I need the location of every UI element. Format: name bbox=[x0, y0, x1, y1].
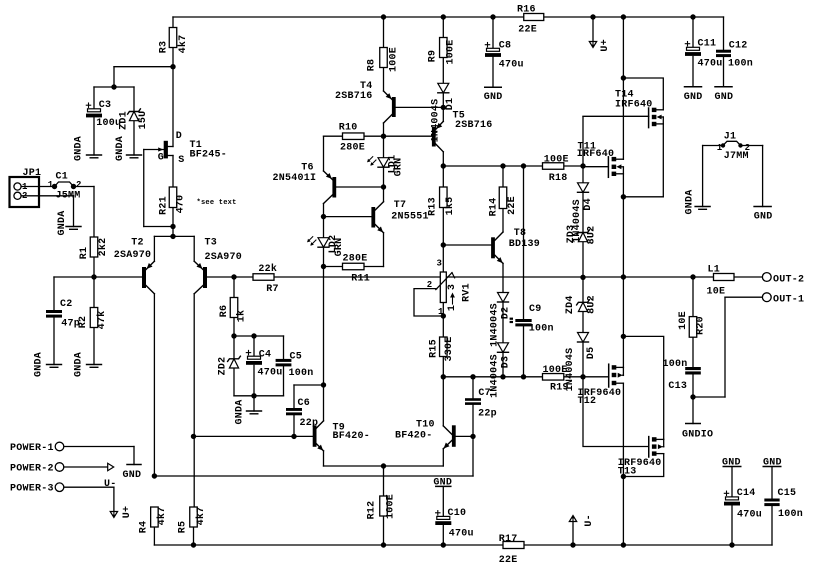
svg-text:S: S bbox=[178, 155, 184, 166]
svg-text:470u: 470u bbox=[698, 59, 723, 70]
svg-text:GNDA: GNDA bbox=[34, 352, 45, 377]
svg-text:100n: 100n bbox=[728, 59, 753, 70]
svg-text:R2: R2 bbox=[78, 316, 89, 329]
svg-text:100E: 100E bbox=[543, 365, 568, 376]
svg-text:T2: T2 bbox=[131, 237, 144, 248]
svg-text:R7: R7 bbox=[266, 284, 279, 295]
svg-text:1N4004S: 1N4004S bbox=[431, 99, 442, 143]
svg-text:100E: 100E bbox=[446, 39, 457, 64]
svg-text:C8: C8 bbox=[499, 41, 512, 52]
svg-text:D5: D5 bbox=[586, 347, 597, 360]
svg-text:L1: L1 bbox=[708, 265, 721, 276]
svg-text:T6: T6 bbox=[301, 162, 314, 173]
svg-text:R14: R14 bbox=[489, 198, 500, 217]
svg-text:1: 1 bbox=[48, 180, 54, 190]
svg-text:ZD4: ZD4 bbox=[565, 295, 576, 314]
svg-text:1k: 1k bbox=[236, 310, 248, 323]
svg-text:T8: T8 bbox=[514, 228, 527, 239]
svg-text:GNDA: GNDA bbox=[235, 399, 246, 424]
svg-text:100n: 100n bbox=[289, 368, 314, 379]
svg-text:330E: 330E bbox=[444, 336, 455, 361]
svg-text:R4: R4 bbox=[138, 521, 149, 534]
svg-text:R15: R15 bbox=[429, 339, 440, 358]
svg-text:100E: 100E bbox=[386, 494, 397, 519]
svg-text:2: 2 bbox=[76, 180, 82, 190]
svg-text:GRN: GRN bbox=[334, 238, 345, 257]
svg-text:GNDIO: GNDIO bbox=[682, 429, 713, 440]
svg-text:2: 2 bbox=[22, 191, 28, 201]
svg-text:470u: 470u bbox=[449, 529, 474, 540]
svg-text:GND: GND bbox=[715, 92, 734, 103]
svg-text:15U: 15U bbox=[138, 111, 149, 130]
svg-text:GND: GND bbox=[763, 458, 782, 469]
svg-text:C14: C14 bbox=[737, 488, 756, 499]
svg-text:R16: R16 bbox=[517, 5, 536, 16]
svg-text:G: G bbox=[158, 153, 164, 164]
svg-text:22p: 22p bbox=[478, 409, 497, 420]
svg-text:GND: GND bbox=[484, 92, 503, 103]
svg-text:1: 1 bbox=[717, 143, 723, 153]
svg-text:1N4004S: 1N4004S bbox=[490, 303, 501, 347]
svg-text:D1: D1 bbox=[445, 98, 456, 111]
svg-text:2SA970: 2SA970 bbox=[205, 252, 243, 263]
svg-text:1N4004S: 1N4004S bbox=[490, 354, 501, 398]
svg-text:R6: R6 bbox=[219, 305, 230, 318]
svg-text:GND: GND bbox=[722, 458, 741, 469]
svg-text:POWER-3: POWER-3 bbox=[10, 484, 54, 495]
svg-text:470u: 470u bbox=[258, 368, 283, 379]
svg-text:U+: U+ bbox=[122, 506, 133, 519]
svg-text:R12: R12 bbox=[367, 501, 378, 520]
svg-text:4k7: 4k7 bbox=[195, 507, 207, 526]
svg-text:IRF640: IRF640 bbox=[577, 149, 615, 160]
svg-text:T7: T7 bbox=[394, 200, 407, 211]
svg-text:D4: D4 bbox=[583, 198, 594, 211]
svg-text:OUT-2: OUT-2 bbox=[773, 274, 804, 285]
svg-text:R1: R1 bbox=[79, 247, 90, 260]
svg-text:RV1: RV1 bbox=[462, 283, 473, 302]
svg-text:2: 2 bbox=[427, 280, 433, 290]
svg-text:2k2: 2k2 bbox=[97, 238, 109, 257]
svg-text:22p: 22p bbox=[300, 418, 319, 429]
svg-text:100n: 100n bbox=[529, 324, 554, 335]
svg-text:8U2: 8U2 bbox=[587, 226, 598, 245]
svg-text:R9: R9 bbox=[428, 50, 439, 63]
svg-text:GND: GND bbox=[754, 212, 773, 223]
svg-text:R5: R5 bbox=[178, 521, 189, 534]
svg-text:C3: C3 bbox=[99, 100, 112, 111]
svg-text:100E: 100E bbox=[389, 47, 400, 72]
svg-text:GNDA: GNDA bbox=[74, 136, 85, 161]
svg-text:POWER-1: POWER-1 bbox=[10, 443, 54, 454]
svg-text:R17: R17 bbox=[499, 534, 518, 545]
svg-text:U-: U- bbox=[104, 479, 117, 490]
svg-text:D: D bbox=[176, 131, 182, 142]
svg-text:C6: C6 bbox=[298, 398, 311, 409]
svg-text:470: 470 bbox=[176, 195, 187, 214]
svg-text:C2: C2 bbox=[60, 299, 73, 310]
svg-text:BF420-: BF420- bbox=[395, 430, 433, 441]
svg-text:100E: 100E bbox=[544, 155, 569, 166]
svg-text:22E: 22E bbox=[499, 555, 518, 563]
svg-text:R8: R8 bbox=[367, 59, 378, 72]
svg-text:T10: T10 bbox=[416, 419, 435, 430]
svg-text:2SB716: 2SB716 bbox=[335, 91, 373, 102]
svg-text:2: 2 bbox=[745, 143, 751, 153]
svg-text:C13: C13 bbox=[668, 381, 687, 392]
svg-text:BF245-: BF245- bbox=[190, 149, 228, 160]
svg-text:GNDA: GNDA bbox=[73, 352, 84, 377]
svg-text:1: 1 bbox=[447, 305, 458, 311]
svg-text:2SB716: 2SB716 bbox=[455, 120, 493, 131]
svg-text:C1: C1 bbox=[56, 172, 69, 183]
svg-text:GNDA: GNDA bbox=[57, 210, 68, 235]
svg-text:C10: C10 bbox=[448, 508, 467, 519]
svg-text:GNDA: GNDA bbox=[115, 136, 126, 161]
svg-text:22E: 22E bbox=[518, 25, 537, 36]
svg-text:100n: 100n bbox=[778, 509, 803, 520]
svg-text:R13: R13 bbox=[428, 197, 439, 216]
svg-text:22k: 22k bbox=[258, 263, 277, 275]
svg-text:U-: U- bbox=[584, 514, 595, 527]
svg-text:T13: T13 bbox=[618, 466, 637, 477]
svg-text:BD139: BD139 bbox=[509, 239, 540, 250]
svg-text:280E: 280E bbox=[343, 253, 368, 264]
svg-text:3: 3 bbox=[447, 284, 458, 290]
svg-text:C12: C12 bbox=[729, 41, 748, 52]
svg-text:47k: 47k bbox=[96, 311, 108, 330]
svg-text:R20: R20 bbox=[696, 316, 707, 335]
svg-text:T3: T3 bbox=[205, 238, 218, 249]
svg-text:R21: R21 bbox=[159, 196, 170, 215]
svg-text:3: 3 bbox=[437, 259, 443, 269]
svg-text:4k7: 4k7 bbox=[156, 507, 168, 526]
svg-text:1k5: 1k5 bbox=[444, 197, 456, 216]
svg-text:GND: GND bbox=[433, 477, 452, 488]
svg-text:1: 1 bbox=[438, 307, 444, 317]
svg-text:GNDA: GNDA bbox=[685, 189, 696, 214]
svg-text:470u: 470u bbox=[737, 510, 762, 521]
svg-text:GND: GND bbox=[123, 470, 142, 481]
svg-text:BF420-: BF420- bbox=[333, 431, 371, 442]
svg-text:22E: 22E bbox=[507, 196, 518, 215]
svg-text:OUT-1: OUT-1 bbox=[773, 294, 804, 305]
svg-text:280E: 280E bbox=[340, 143, 365, 154]
svg-text:GND: GND bbox=[684, 92, 703, 103]
svg-text:C4: C4 bbox=[259, 350, 272, 361]
svg-text:U+: U+ bbox=[600, 39, 611, 52]
svg-text:470u: 470u bbox=[499, 60, 524, 71]
svg-text:C11: C11 bbox=[698, 39, 717, 50]
svg-text:POWER-2: POWER-2 bbox=[10, 464, 54, 475]
svg-text:GRN: GRN bbox=[393, 158, 404, 177]
svg-text:2N5551: 2N5551 bbox=[391, 211, 429, 222]
svg-text:ZD2: ZD2 bbox=[218, 357, 229, 376]
svg-text:C9: C9 bbox=[529, 304, 542, 315]
svg-text:R11: R11 bbox=[351, 274, 370, 285]
svg-text:ZD1: ZD1 bbox=[119, 111, 130, 130]
svg-text:2N5401I: 2N5401I bbox=[273, 173, 317, 184]
svg-text:ZD3: ZD3 bbox=[566, 225, 577, 244]
svg-text:10E: 10E bbox=[707, 287, 726, 298]
svg-text:J5MM: J5MM bbox=[56, 191, 81, 202]
svg-text:R10: R10 bbox=[339, 123, 358, 134]
svg-text:J1: J1 bbox=[724, 132, 737, 143]
svg-text:100n: 100n bbox=[663, 359, 688, 370]
svg-text:*see text: *see text bbox=[197, 199, 237, 207]
svg-text:C15: C15 bbox=[778, 488, 797, 499]
svg-text:D3: D3 bbox=[501, 356, 512, 369]
svg-text:C5: C5 bbox=[290, 351, 303, 362]
svg-text:D2: D2 bbox=[501, 307, 512, 320]
svg-text:10E: 10E bbox=[678, 311, 689, 330]
svg-text:8U2: 8U2 bbox=[587, 295, 598, 314]
svg-text:IRF640: IRF640 bbox=[615, 100, 653, 111]
svg-text:JP1: JP1 bbox=[23, 168, 42, 179]
svg-text:R3: R3 bbox=[158, 41, 169, 54]
svg-text:1N4004S: 1N4004S bbox=[565, 348, 576, 392]
svg-text:4k7: 4k7 bbox=[177, 35, 189, 54]
svg-text:T12: T12 bbox=[578, 396, 597, 407]
svg-text:2SA970: 2SA970 bbox=[114, 250, 152, 261]
svg-text:R18: R18 bbox=[549, 173, 568, 184]
